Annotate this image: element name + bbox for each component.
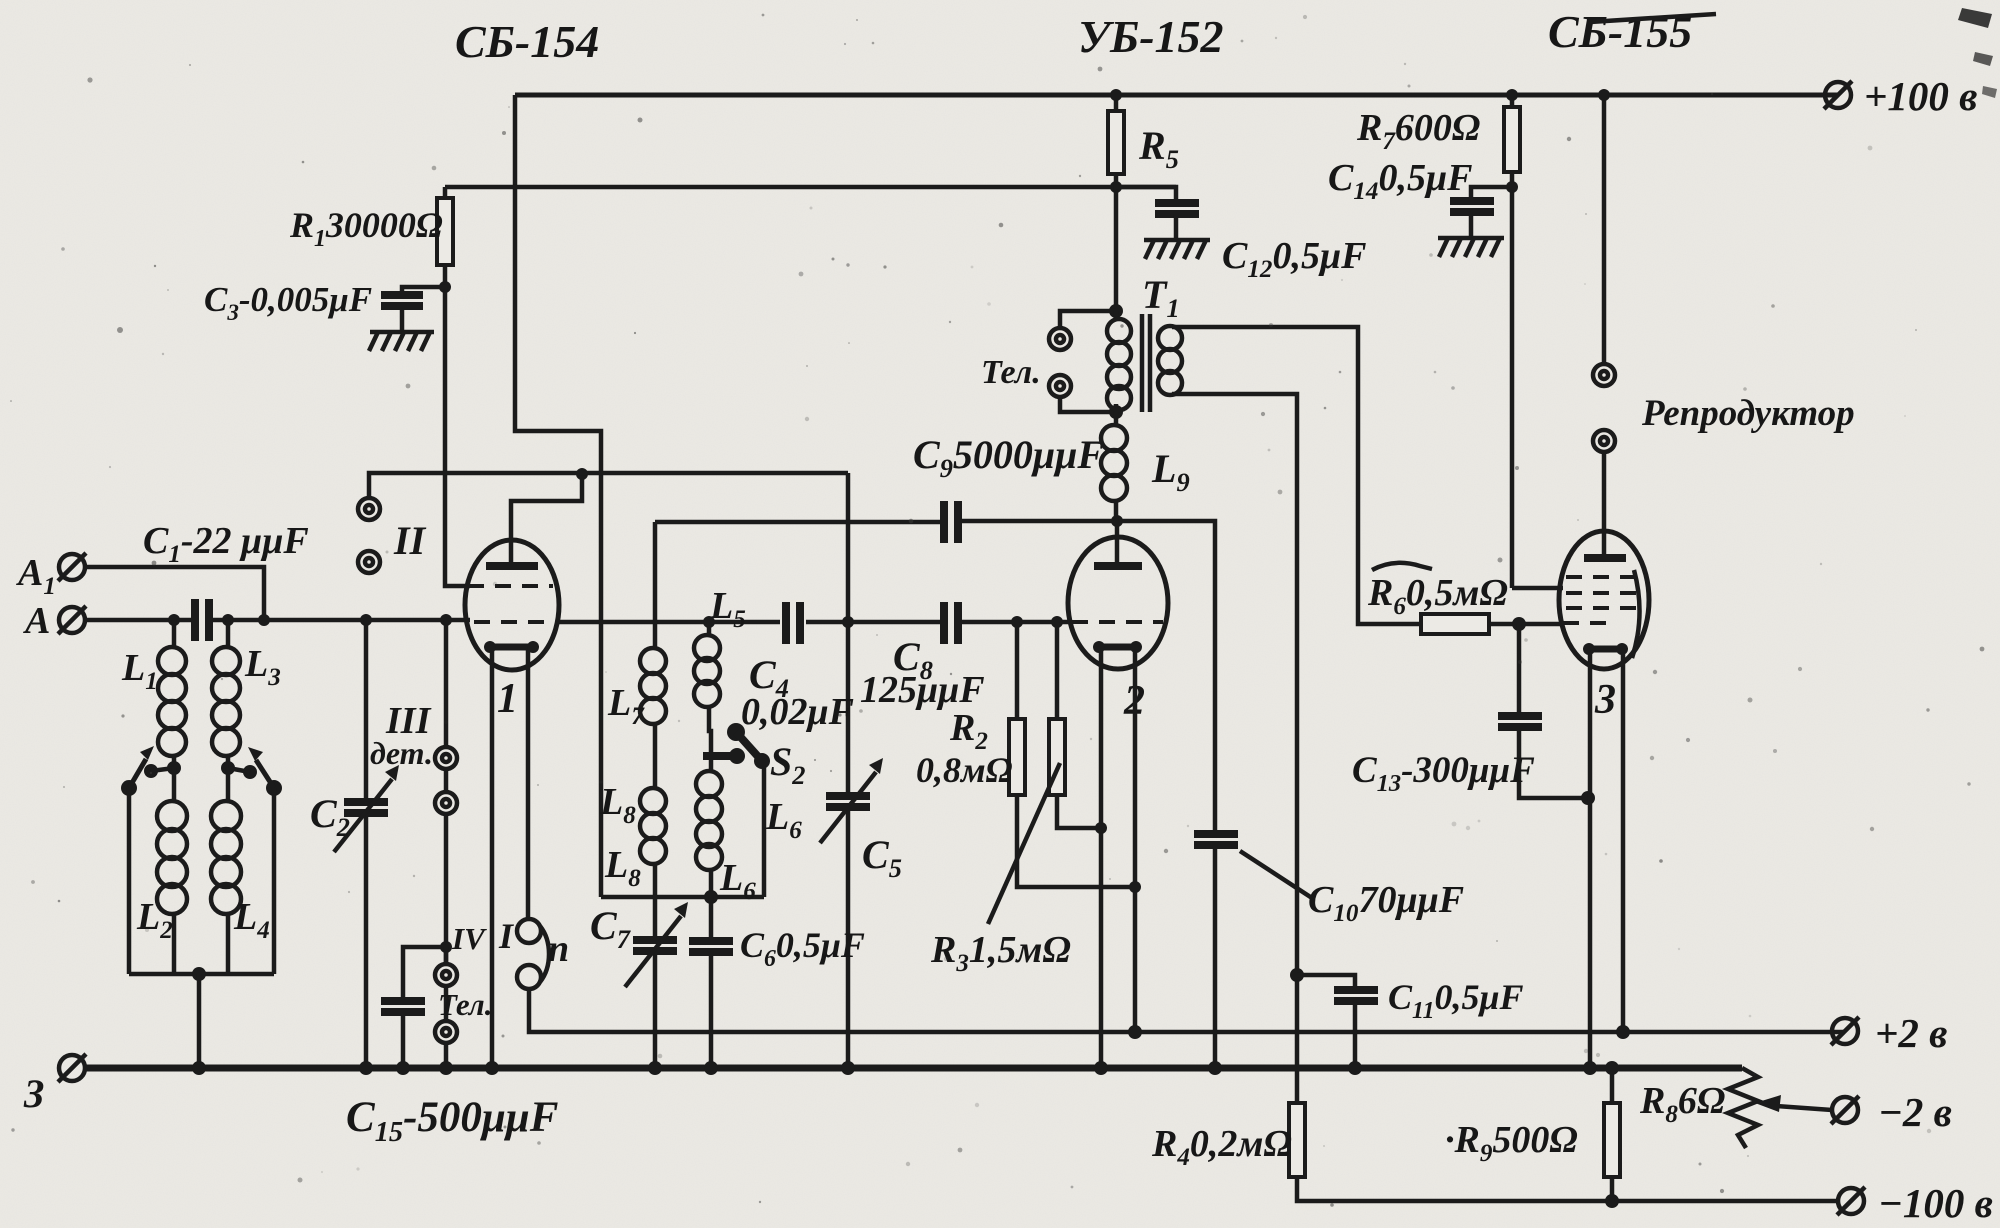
wire R1 to tube1 screen grid bbox=[445, 287, 470, 586]
svg-text:С1-22 μμF: С1-22 μμF bbox=[143, 520, 309, 568]
node C11 tap bbox=[1290, 968, 1304, 982]
wire V1 filament right to switch I bbox=[526, 650, 531, 919]
tube V3 grids (dashed) bbox=[1566, 575, 1638, 579]
wire L7/L8 branch bbox=[653, 522, 658, 1068]
svg-text:А: А bbox=[23, 600, 50, 642]
capacitor C8 bbox=[940, 602, 948, 644]
node R3 return bbox=[1095, 822, 1107, 834]
svg-text:IV: IV bbox=[451, 921, 487, 956]
svg-text:R40,2мΩ: R40,2мΩ bbox=[1151, 1123, 1292, 1171]
inductor L9 bbox=[1114, 412, 1119, 521]
tube V2 grid (dashed) bbox=[1072, 620, 1163, 624]
wire V1 anode lead bbox=[511, 474, 582, 562]
node rail: C10 line bbox=[1208, 1061, 1222, 1075]
svg-text:СБ-154: СБ-154 bbox=[455, 16, 599, 67]
wire bus drop to ground rail bbox=[197, 974, 202, 1068]
capacitor C12 bbox=[1155, 199, 1199, 207]
node L3 top bbox=[222, 614, 234, 626]
inductor L8 bbox=[640, 788, 666, 864]
node R5 top on rail bbox=[1110, 89, 1122, 101]
ground below C3 bbox=[369, 332, 434, 351]
wire tank box bottom bbox=[601, 895, 764, 900]
svg-text:С110,5μF: С110,5μF bbox=[1388, 977, 1524, 1024]
svg-text:R7600Ω: R7600Ω bbox=[1356, 107, 1480, 155]
svg-text:С1070μμF: С1070μμF bbox=[1308, 879, 1464, 927]
svg-text:·R9500Ω: ·R9500Ω bbox=[1445, 1119, 1578, 1167]
ground below C14 bbox=[1438, 238, 1504, 257]
switch I/П contact lower bbox=[517, 965, 541, 989]
svg-text:1: 1 bbox=[497, 676, 518, 722]
wire -2v wiper arrow bbox=[1777, 1106, 1832, 1110]
wire V3 filament left to ground rail bbox=[1588, 652, 1593, 1068]
wire V2 filament left to ground rail bbox=[1099, 650, 1104, 1068]
wire T1 secondary bottom to R4 bbox=[1172, 394, 1297, 1103]
capacitor C14 bbox=[1471, 187, 1512, 238]
terminal II upper bbox=[358, 498, 380, 520]
resistor R6 bbox=[1421, 614, 1489, 634]
tube V2 envelope bbox=[1068, 537, 1168, 669]
tube V1 control grid (dashed) bbox=[474, 620, 552, 624]
svg-text:+100 в: +100 в bbox=[1864, 73, 1977, 119]
capacitor C11 bbox=[1297, 975, 1355, 1068]
node C5 branch at grid line bbox=[842, 616, 854, 628]
terminal IV upper bbox=[435, 964, 457, 986]
scan smudge top right corner bbox=[1958, 8, 1992, 28]
svg-text:Тел.: Тел. bbox=[981, 354, 1041, 391]
resistor R5 bbox=[1114, 95, 1119, 311]
wire Тел lower lead bbox=[1060, 397, 1116, 412]
capacitor C15 bbox=[403, 947, 446, 1068]
svg-text:−2 в: −2 в bbox=[1878, 1089, 1952, 1135]
node L1 top bbox=[168, 614, 180, 626]
wire S2 bracket bbox=[762, 762, 767, 897]
tube V3 filament bbox=[1589, 646, 1622, 653]
capacitor C7 (variable) bbox=[633, 936, 677, 944]
wire IV branch bbox=[444, 947, 449, 1068]
node R7 top on rail bbox=[1506, 89, 1518, 101]
tube V1 envelope bbox=[465, 540, 559, 670]
node bus to ground rail bbox=[192, 967, 206, 981]
label R6 0,5мΩ with squiggle bbox=[1372, 563, 1432, 570]
terminal +2v bbox=[1831, 1017, 1859, 1045]
node L3 bottom bbox=[221, 761, 235, 775]
terminal II lower bbox=[358, 551, 380, 573]
node rail: V2 filament bbox=[1094, 1061, 1108, 1075]
inductor L5 bbox=[694, 635, 720, 707]
wire right switch drop bbox=[272, 788, 277, 974]
wire A1 lead bbox=[85, 567, 264, 620]
node C15 tap bbox=[440, 941, 452, 953]
wire detector branch bbox=[444, 620, 449, 964]
wire -100v line bbox=[1297, 1177, 1838, 1201]
wire bias rail stub to C12 bbox=[1116, 187, 1176, 202]
node R2 return bbox=[1129, 881, 1141, 893]
inductor L1 bbox=[172, 620, 177, 648]
terminal Тел upper bbox=[1049, 328, 1071, 350]
terminal +100v bbox=[1824, 81, 1852, 109]
node rail: V1 filament bbox=[485, 1061, 499, 1075]
capacitor C1 bbox=[191, 599, 199, 641]
node C13 to cathode bbox=[1581, 791, 1595, 805]
wire Тел upper lead bbox=[1060, 311, 1116, 328]
svg-text:+2 в: +2 в bbox=[1875, 1010, 1947, 1056]
svg-text:Репродуктор: Репродуктор bbox=[1641, 393, 1855, 434]
terminal A bbox=[58, 606, 86, 634]
node rail: C6 bbox=[704, 1061, 718, 1075]
svg-text:3: 3 bbox=[1594, 677, 1616, 723]
transformer T1 core bbox=[1140, 314, 1145, 412]
tube V1 filament bbox=[490, 644, 533, 651]
wire V1 filament left to ground rail bbox=[490, 650, 495, 1068]
node L5 top bbox=[703, 616, 715, 628]
capacitor C6 bbox=[709, 897, 714, 1068]
svg-text:дет.: дет. bbox=[370, 735, 433, 771]
node A1 join bbox=[258, 614, 270, 626]
svg-text:R31,5мΩ: R31,5мΩ bbox=[930, 929, 1071, 977]
wire +100v feed to tank (x=515 drop, jog, x=601 drop) bbox=[515, 95, 601, 897]
transformer T1 primary winding bbox=[1114, 311, 1119, 412]
svg-text:0,8мΩ: 0,8мΩ bbox=[916, 750, 1013, 790]
wire V3 filament right to +2v bbox=[1621, 652, 1626, 1032]
switch arm right band switch bbox=[266, 780, 282, 796]
wire coil block bottom bus bbox=[129, 972, 274, 977]
node rail: C7 bbox=[648, 1061, 662, 1075]
svg-text:СБ-155: СБ-155 bbox=[1548, 6, 1692, 57]
node rail: C2 bbox=[359, 1061, 373, 1075]
capacitor C10 bbox=[1194, 830, 1238, 838]
ground rail bbox=[85, 1065, 1742, 1072]
label C10 70μμF with pointer bbox=[1240, 851, 1312, 898]
svg-text:п: п bbox=[548, 928, 569, 970]
node det branch tap bbox=[440, 614, 452, 626]
switch I/П contact upper bbox=[517, 919, 541, 943]
wire T1 secondary top to R6 bbox=[1172, 327, 1421, 624]
node rail: C5 bbox=[841, 1061, 855, 1075]
wire L5/L6 branch bbox=[709, 622, 711, 897]
svg-text:II: II bbox=[393, 518, 427, 563]
wire R6 to tube3 grid bbox=[1489, 622, 1561, 627]
tube V1 screen grid (dashed) bbox=[468, 584, 553, 588]
svg-text:С140,5μF: С140,5μF bbox=[1328, 157, 1472, 205]
node rail: L-block bbox=[192, 1061, 206, 1075]
node T1 primary top bbox=[1109, 304, 1123, 318]
node R9 top on rail bbox=[1605, 1061, 1619, 1075]
resistor R9 bbox=[1610, 1068, 1615, 1201]
inductor L3 bbox=[226, 620, 231, 648]
resistor R2 bbox=[1017, 622, 1135, 887]
ground below C12 bbox=[1144, 240, 1210, 259]
node R6/C13 junction bbox=[1512, 617, 1526, 631]
inductor L6 bbox=[696, 771, 722, 870]
tube V2 anode bbox=[1094, 562, 1142, 570]
wire R7 to tube3 screen bbox=[1512, 586, 1563, 591]
node C2 tap bbox=[360, 614, 372, 626]
wire speaker terminal to +100v rail bbox=[1602, 95, 1607, 364]
svg-text:Тел.: Тел. bbox=[438, 987, 492, 1022]
node rail: V3 filament bbox=[1583, 1061, 1597, 1075]
wire V2 filament right to +2v bbox=[1133, 650, 1138, 1032]
wire left switch drop bbox=[127, 788, 132, 974]
capacitor C13 bbox=[1519, 624, 1588, 798]
svg-text:0,02μF: 0,02μF bbox=[741, 691, 854, 733]
wire grid line tube1 to tube2 bbox=[556, 620, 1071, 625]
rheostat R8 zigzag bbox=[1728, 1068, 1758, 1148]
transformer T1 secondary winding bbox=[1158, 326, 1182, 395]
terminal IV lower bbox=[435, 1021, 457, 1043]
terminal III det upper bbox=[435, 747, 457, 769]
terminal Тел lower bbox=[1049, 375, 1071, 397]
terminal A1 bbox=[58, 553, 86, 581]
wire C9 line (tank top to tube2 anode) bbox=[655, 521, 1215, 1068]
wire II to C5 branch bbox=[369, 473, 848, 498]
inductor L2 bbox=[172, 768, 177, 801]
node R1/C3 junction bbox=[439, 281, 451, 293]
capacitor C9 bbox=[940, 501, 948, 543]
node rail: C15 bbox=[396, 1061, 410, 1075]
node V2 anode / L9 / C9 line bbox=[1111, 515, 1123, 527]
switch S2 blade bbox=[727, 723, 745, 741]
node rail: IV bbox=[439, 1061, 453, 1075]
wire heater return (+2v line) bbox=[529, 989, 1845, 1032]
node V3 fil right on +2v bbox=[1616, 1025, 1630, 1039]
svg-text:З: З bbox=[23, 1071, 44, 1116]
node R9 bottom bbox=[1605, 1194, 1619, 1208]
terminal -2v bbox=[1831, 1096, 1859, 1124]
tube V1 anode bbox=[486, 562, 538, 570]
wire antenna line / tube1 grid line bbox=[85, 618, 470, 623]
terminal З bbox=[58, 1054, 86, 1082]
svg-text:−100 в: −100 в bbox=[1878, 1180, 1993, 1226]
capacitor C3 bbox=[402, 287, 445, 332]
wire V3 anode to speaker terminal bbox=[1602, 452, 1607, 554]
svg-text:R60,5мΩ: R60,5мΩ bbox=[1367, 572, 1508, 620]
node L6 bottom bbox=[704, 890, 718, 904]
tube V3 anode side curve bbox=[1632, 570, 1640, 658]
node R5 bottom junction bbox=[1110, 181, 1122, 193]
tube V3 anode bbox=[1584, 554, 1626, 562]
inductor L4 bbox=[226, 768, 231, 801]
wire V2 anode lead bbox=[1115, 521, 1120, 562]
node R7/C14 junction bbox=[1506, 181, 1518, 193]
node speaker line on rail bbox=[1598, 89, 1610, 101]
terminal Репродуктор lower bbox=[1593, 430, 1615, 452]
switch arm left band switch bbox=[121, 780, 137, 796]
node T1 primary bottom bbox=[1109, 405, 1123, 419]
svg-text:С60,5μF: С60,5μF bbox=[740, 925, 865, 972]
node L1 bottom bbox=[167, 761, 181, 775]
svg-text:I: I bbox=[498, 916, 515, 956]
inductor L7 bbox=[640, 648, 666, 724]
resistor R7 bbox=[1510, 95, 1515, 588]
terminal III det lower bbox=[435, 792, 457, 814]
switch S2 fixed contact bar bbox=[703, 752, 738, 760]
node R3 top bbox=[1051, 616, 1063, 628]
resistor R1 bbox=[443, 187, 448, 287]
capacitor C2 (variable) bbox=[364, 620, 369, 1068]
node R2 top bbox=[1011, 616, 1023, 628]
svg-text:125μμF: 125μμF bbox=[860, 669, 985, 711]
svg-text:УБ-152: УБ-152 bbox=[1078, 11, 1224, 62]
svg-text:С120,5μF: С120,5μF bbox=[1222, 235, 1366, 283]
node rail: C11 bbox=[1348, 1061, 1362, 1075]
wire +100v top rail bbox=[515, 93, 1838, 98]
tube V2 filament bbox=[1099, 644, 1136, 651]
resistor R4 bbox=[1289, 1103, 1305, 1177]
capacitor C4 bbox=[782, 602, 790, 644]
terminal -100v bbox=[1837, 1187, 1865, 1215]
capacitor C5 (variable) bbox=[826, 792, 870, 800]
wire C5 branch vertical bbox=[846, 473, 851, 1068]
tube V3 envelope bbox=[1559, 531, 1649, 669]
wire grid-bias rail (second rail) bbox=[445, 185, 1176, 190]
svg-text:R86Ω: R86Ω bbox=[1639, 1080, 1725, 1128]
node V2 fil right on +2v bbox=[1128, 1025, 1142, 1039]
node anode to C5 line bbox=[576, 468, 588, 480]
svg-text:R130000Ω: R130000Ω bbox=[289, 205, 443, 252]
terminal Репродуктор upper bbox=[1593, 364, 1615, 386]
label R3 1,5МΩ with pointer bbox=[988, 763, 1060, 924]
switch I/П jumper bracket bbox=[540, 926, 549, 982]
resistor R3 bbox=[1057, 622, 1101, 828]
